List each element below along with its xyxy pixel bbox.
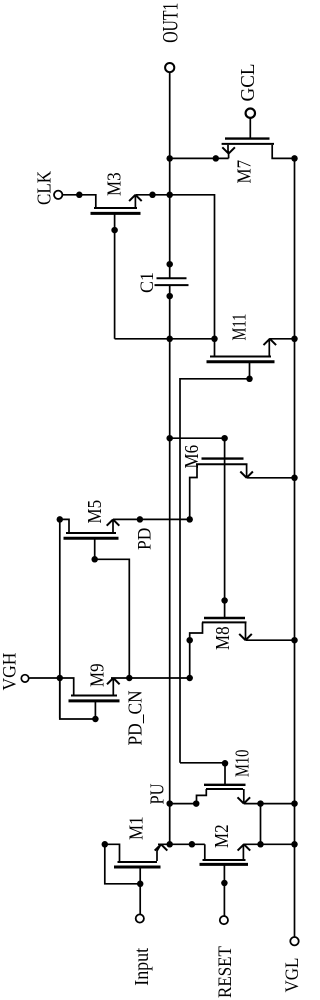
- M5 source lead: [112, 519, 114, 532]
- wire PD to M10 gate: [180, 763, 225, 785]
- junction gate line top: [221, 435, 228, 442]
- M5 gate bar: [64, 537, 119, 540]
- M10 source lead: [243, 789, 245, 804]
- junction M6 drain / PD wire: [186, 516, 193, 523]
- junction M5 gate riser / PD_CN wire: [126, 675, 133, 682]
- wire PU to M10 drain: [170, 803, 196, 805]
- junction CLK wire: [76, 192, 83, 199]
- svg-text:M9: M9: [86, 663, 109, 687]
- M8 gate bar: [204, 617, 245, 619]
- wire VGL rail: [294, 158, 296, 937]
- svg-text:VGL: VGL: [281, 958, 302, 993]
- svg-text:PD: PD: [134, 528, 155, 550]
- junction riser bottom: [257, 841, 264, 848]
- M5 gate junction dot: [91, 556, 98, 563]
- M1 source arrow: [155, 844, 168, 850]
- capacitor C1: [137, 261, 189, 299]
- M11 source lead: [268, 339, 270, 356]
- M3 gate lead: [114, 213, 116, 338]
- M5 source arrow: [107, 519, 120, 525]
- M5 drain wire from VGH riser: [60, 519, 69, 532]
- svg-text:M2: M2: [211, 824, 234, 848]
- M9 gate tie to VGH wire: [60, 678, 96, 719]
- C1 bottom plate: [155, 284, 189, 286]
- M6 drain lead (Z-step to PD wire): [190, 464, 197, 519]
- M11 gate bar: [207, 360, 275, 363]
- M10 channel: [206, 788, 243, 790]
- wire riser M2 source to M10 source: [260, 804, 262, 845]
- M10 gate bar: [204, 784, 246, 786]
- svg-text:CLK: CLK: [33, 170, 56, 205]
- wire PU horizontal at M11 drain level: [115, 338, 215, 340]
- M7 gate bar: [225, 137, 270, 139]
- junction dot on M3 source wire: [149, 192, 156, 199]
- svg-text:M11: M11: [228, 314, 250, 341]
- M9 gate lead: [94, 701, 96, 719]
- M1 drain wire: [105, 844, 120, 861]
- wire CLK to M3 drain: [63, 195, 96, 207]
- transistor M5: [57, 500, 120, 563]
- M6 channel: [196, 463, 248, 465]
- junction M11 source / VGL rail: [291, 336, 298, 343]
- wire M5 gate to PD_CN: [95, 559, 130, 678]
- M2 gate junction dot: [221, 880, 228, 887]
- M7 source arrow: [222, 147, 235, 153]
- svg-text:M3: M3: [103, 172, 126, 196]
- junction M3 source / OUT1 vertical: [166, 192, 173, 199]
- wire VGH to M9 drain: [29, 678, 73, 695]
- C1 top plate: [157, 277, 187, 279]
- junction dot on PD wire: [137, 516, 144, 523]
- svg-text:M1: M1: [125, 816, 148, 840]
- junction M10 gate drop: [222, 760, 229, 767]
- svg-text:PU: PU: [146, 783, 168, 804]
- junction M8 source / VGL rail: [291, 637, 298, 644]
- M1 source lead: [157, 844, 161, 861]
- wire M8 source to VGL rail: [246, 639, 295, 641]
- wire GCL to M7 gate: [249, 118, 251, 139]
- junction OUT1/M7 wire: [166, 155, 173, 162]
- transistor M11: [207, 314, 277, 382]
- M8 drain lead dot: [186, 637, 193, 644]
- wire M1 source to PU: [158, 843, 205, 845]
- M8 channel: [202, 621, 247, 623]
- svg-text:VGH: VGH: [0, 653, 20, 691]
- svg-text:M8: M8: [212, 626, 235, 650]
- M9 channel: [71, 695, 117, 697]
- junction dot on OUT1-M7 wire: [213, 155, 220, 162]
- node VGL terminal: [290, 937, 298, 945]
- M1 channel: [118, 861, 158, 863]
- M1 gate tie to drain: [105, 844, 140, 884]
- M9 gate junction dot: [92, 716, 99, 723]
- M5 channel: [66, 532, 116, 534]
- svg-text:GCL: GCL: [238, 64, 260, 102]
- wire PU vertical (C1 bottom to M1): [169, 285, 171, 844]
- M10 source arrow: [238, 797, 251, 803]
- C1 bottom junction dot: [166, 293, 173, 300]
- wire common gate line M6/M8: [224, 438, 226, 618]
- wire OUT1 to M7 source: [170, 157, 229, 159]
- M11 channel: [210, 356, 271, 358]
- M5 gate lead: [94, 538, 96, 559]
- svg-text:C1: C1: [137, 272, 157, 293]
- M7 source lead: [227, 145, 230, 159]
- M7 channel: [222, 143, 274, 145]
- transistor M10: [193, 750, 253, 807]
- M11 gate junction dot: [246, 376, 253, 383]
- junction riser top: [257, 800, 264, 807]
- M6 source arrow: [240, 472, 253, 478]
- junction M2 source / VGL rail: [291, 841, 298, 848]
- svg-text:M5: M5: [84, 500, 107, 524]
- wire PD net (M5 source to M6 drain): [113, 518, 190, 520]
- M8 source arrow: [239, 634, 252, 640]
- transistor M2: [200, 824, 251, 916]
- junction M10 source / VGL rail: [291, 800, 298, 807]
- C1 top junction dot: [166, 261, 173, 268]
- svg-text:RESET: RESET: [214, 946, 235, 998]
- junction M8 drain / PD_CN wire: [186, 675, 193, 682]
- wire PD_CN (M9 source to M8 drain): [111, 677, 190, 679]
- node OUT1 terminal: [165, 63, 174, 72]
- node Input terminal: [136, 914, 144, 922]
- junction PU vertical / M11 wire: [166, 336, 173, 343]
- M1 drain junction dot: [102, 841, 109, 848]
- junction dot on M2 drain wire: [189, 841, 196, 848]
- M3 gate junction dot: [111, 227, 118, 234]
- transistor M6: [181, 445, 253, 520]
- node VGH terminal: [21, 675, 28, 682]
- M2 drain lead: [204, 844, 206, 859]
- wire VGH riser (M5 drain to VGH): [59, 519, 61, 718]
- wire OUT1 vertical: [169, 72, 171, 278]
- M2 gate lead: [223, 864, 225, 916]
- wire M11 source to VGL rail: [269, 338, 294, 340]
- M9 source lead: [112, 678, 114, 695]
- transistor M3: [91, 172, 142, 338]
- M10 drain lead dot: [193, 800, 200, 807]
- wire M3 source to OUT1 and riser: [135, 195, 214, 339]
- M1 gate junction dot: [137, 881, 144, 888]
- M2 source arrow: [238, 844, 251, 850]
- M11 drain lead: [214, 339, 216, 356]
- junction VGH riser / wire: [57, 675, 64, 682]
- M9 source arrow: [107, 678, 120, 684]
- M2 source lead: [242, 844, 244, 859]
- svg-text:M10: M10: [231, 750, 253, 777]
- junction M7 drain / VGL rail top: [291, 155, 298, 162]
- junction PU bottom: [166, 841, 173, 848]
- M7 drain lead: [272, 145, 294, 159]
- M3 gate bar: [91, 212, 141, 215]
- node GCL terminal: [246, 109, 255, 118]
- M9 gate bar: [69, 699, 120, 702]
- M11 source arrow: [264, 339, 277, 345]
- M5 drain junction dot: [57, 516, 64, 523]
- wire PU to M6/M8 gate line: [170, 437, 225, 439]
- junction M6 source / VGL rail: [291, 475, 298, 482]
- junction PU vertical / gate wire: [166, 435, 173, 442]
- node CLK terminal: [54, 191, 62, 199]
- M8 source lead: [245, 622, 247, 640]
- M3 source arrow: [129, 195, 142, 201]
- junction PU vertical / M10 drain wire: [166, 800, 173, 807]
- transistor M1: [102, 816, 168, 914]
- transistor M7: [222, 139, 294, 184]
- M1 gate lead: [139, 867, 141, 914]
- M3 source lead: [134, 195, 136, 207]
- wire PD net from M11 gate: [180, 379, 250, 763]
- svg-text:Input: Input: [131, 947, 153, 986]
- svg-text:OUT1: OUT1: [159, 3, 183, 43]
- svg-text:PD_CN: PD_CN: [124, 690, 146, 746]
- junction M11 drain riser: [211, 336, 218, 343]
- M6 source lead: [246, 464, 248, 478]
- M2 gate bar: [200, 863, 249, 866]
- wire M2 source to VGL rail: [243, 843, 294, 845]
- node RESET terminal: [220, 916, 228, 924]
- M2 channel: [203, 859, 246, 861]
- svg-text:M7: M7: [233, 160, 256, 184]
- M6 gate bar: [202, 457, 244, 459]
- M1 gate bar: [114, 866, 161, 869]
- wire M10 source to VGL rail: [244, 803, 295, 805]
- M11 gate lead: [249, 362, 251, 379]
- M10 drain lead (Z-step): [197, 789, 207, 804]
- transistor M8: [186, 597, 251, 678]
- wire M6 source to VGL rail: [247, 477, 295, 479]
- M8 drain lead (Z-step down): [190, 622, 203, 678]
- transistor M9: [60, 663, 120, 722]
- M3 channel: [94, 207, 137, 209]
- M8 gate junction dot: [221, 597, 228, 604]
